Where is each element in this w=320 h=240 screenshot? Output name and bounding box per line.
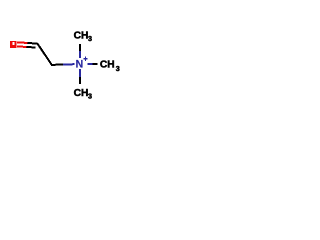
svg-text:3: 3	[116, 64, 120, 73]
double bond O=C1, bottom line, O-colored half	[17, 45, 26, 48]
bond N-C5 (right), carbon half	[93, 63, 98, 65]
atom O (aldehyde oxygen)	[10, 41, 17, 48]
double bond O=C1, top line, C-colored half	[27, 42, 37, 45]
bond N-C5 (right), nitrogen half	[88, 63, 93, 65]
bond C2-N, nitrogen half	[63, 63, 74, 65]
svg-text:N: N	[76, 59, 84, 71]
double bond O=C1, bottom line, C-colored half	[26, 46, 35, 49]
svg-text:3: 3	[88, 34, 92, 43]
svg-text:CH: CH	[74, 31, 89, 42]
bond N-C3 (up), nitrogen half	[79, 51, 81, 58]
bond N-C4 (down), nitrogen half	[79, 69, 81, 77]
svg-text:CH: CH	[100, 60, 115, 71]
bond C1-C2 (diagonal)	[37, 43, 52, 65]
charge plus on N	[85, 56, 86, 61]
bond N-C3 (up), carbon half	[79, 44, 81, 51]
bond C2-N, carbon half	[51, 64, 63, 66]
double bond O=C1, top line, O-colored half	[17, 41, 27, 44]
bond N-C4 (down), carbon half	[79, 77, 81, 84]
svg-text:CH: CH	[74, 88, 89, 99]
svg-text:3: 3	[88, 91, 92, 100]
